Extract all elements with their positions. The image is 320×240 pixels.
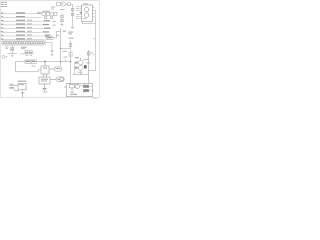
bus wire 3 [1, 20, 50, 22]
small text under label boxes [32, 65, 36, 68]
vertical rail x72.6 [72, 4, 74, 26]
LED dark [84, 65, 87, 68]
junction node U5 top pin [44, 61, 45, 62]
connector J1 inner text [19, 83, 24, 86]
net label chips right [83, 85, 89, 88]
bus wire 2 [1, 16, 42, 18]
component on rail 1 [71, 8, 74, 11]
series resistor row [2, 42, 45, 44]
left mid text [21, 46, 27, 49]
mid right components [61, 38, 75, 84]
crystal circle [50, 12, 54, 16]
labels near top cluster [51, 6, 55, 9]
net oval 1 [54, 67, 62, 71]
crystal area labels [42, 10, 50, 13]
crystal cluster box 3 [54, 12, 57, 15]
bottom-right group box [64, 84, 93, 97]
transistor Q2 [78, 66, 83, 71]
capacitor C mid [51, 49, 54, 51]
bottom-left connector box [10, 83, 27, 97]
U6 text lines [41, 79, 48, 80]
connector J1 lower label [14, 89, 19, 92]
wire from resistor row to cap [45, 43, 53, 57]
IC left pin labels [76, 6, 79, 19]
U5 refdes text [43, 68, 47, 69]
net oval 2 text [57, 79, 60, 80]
bus wire 7 [1, 35, 50, 37]
note text line 2 [1, 3, 7, 6]
resistor row pins [3, 40, 44, 45]
bus wire second labels [27, 20, 32, 40]
transistor labels [75, 57, 79, 58]
mid small box (regulator?) [45, 29, 62, 67]
group box caption text [70, 94, 77, 95]
connector circle far left [2, 55, 8, 58]
IC left pins [79, 7, 81, 19]
ground under rail x62 [60, 23, 63, 25]
ground under rail x72.6 [71, 26, 74, 28]
ground left [11, 54, 13, 56]
mid-right value text [62, 51, 66, 52]
junction node rail/cap wire [60, 48, 61, 49]
L wire down-left [14, 62, 16, 72]
bus wire 5 [1, 27, 51, 29]
chip wires to box edge [89, 86, 93, 90]
grounds [25, 55, 28, 57]
bus wire 6 [1, 31, 49, 33]
ground mid [51, 54, 54, 56]
center vertical rail [60, 29, 62, 67]
sheet border frame [1, 1, 100, 98]
resistor network enclosure [2, 41, 46, 45]
label right of center rail [63, 31, 66, 32]
top small box (polyfuse) [57, 2, 75, 28]
top circle component (crystal) [61, 2, 65, 6]
IC U3 box [82, 5, 93, 22]
bus wire 8 [1, 38, 45, 40]
IC pin dot [80, 12, 81, 13]
ground arrow under U6 [42, 87, 46, 89]
rails ground text [68, 31, 73, 34]
connector J1 pin labels [10, 83, 14, 86]
box U5 (opto) [41, 61, 62, 77]
series component top [68, 3, 71, 6]
frame corner text [93, 97, 98, 100]
capacitor C7 value text [5, 46, 9, 49]
inner transistor label [80, 84, 83, 87]
inner transistor [75, 84, 79, 88]
electrolytic cap left [8, 45, 18, 56]
inner box [70, 84, 75, 88]
transistor Q1 [73, 51, 96, 84]
IC bottom wire to rail [82, 10, 95, 70]
connector J1 title text [18, 81, 26, 82]
bus wire 4 [1, 23, 49, 25]
component on rail 2 [71, 13, 74, 16]
box U6 [39, 77, 64, 91]
bus wire 1 [1, 12, 43, 14]
ground label text [43, 91, 47, 94]
resistor row pin labels [2, 44, 45, 47]
crystal cluster box 1 [42, 12, 57, 18]
IC inner bottom text [83, 17, 87, 20]
power net label text [26, 61, 30, 62]
cap on rail x62 (2) [61, 20, 64, 22]
crystal cluster box 2 [46, 12, 49, 15]
two small boxes mid-left [21, 51, 34, 56]
junction dot power [70, 61, 71, 62]
power net label boxes [15, 60, 70, 72]
note text line 1 [1, 1, 7, 4]
right vertical rail [95, 10, 97, 70]
cap on rail x62 (1) [61, 16, 64, 18]
IC internal circle 1 [84, 7, 88, 11]
net oval 2 [56, 77, 64, 82]
wires around transistors [80, 70, 82, 75]
IC right pins [93, 7, 96, 16]
wire from circle to series box [65, 3, 67, 5]
junction node rail/power wire [60, 61, 61, 62]
IC internal circle 2 [84, 13, 88, 17]
note text line 3 [1, 5, 7, 8]
net oval 1 text [56, 68, 61, 69]
vertical rail x62 [61, 14, 63, 24]
IC refdes text [83, 2, 88, 5]
small caps below crystal [44, 17, 46, 19]
